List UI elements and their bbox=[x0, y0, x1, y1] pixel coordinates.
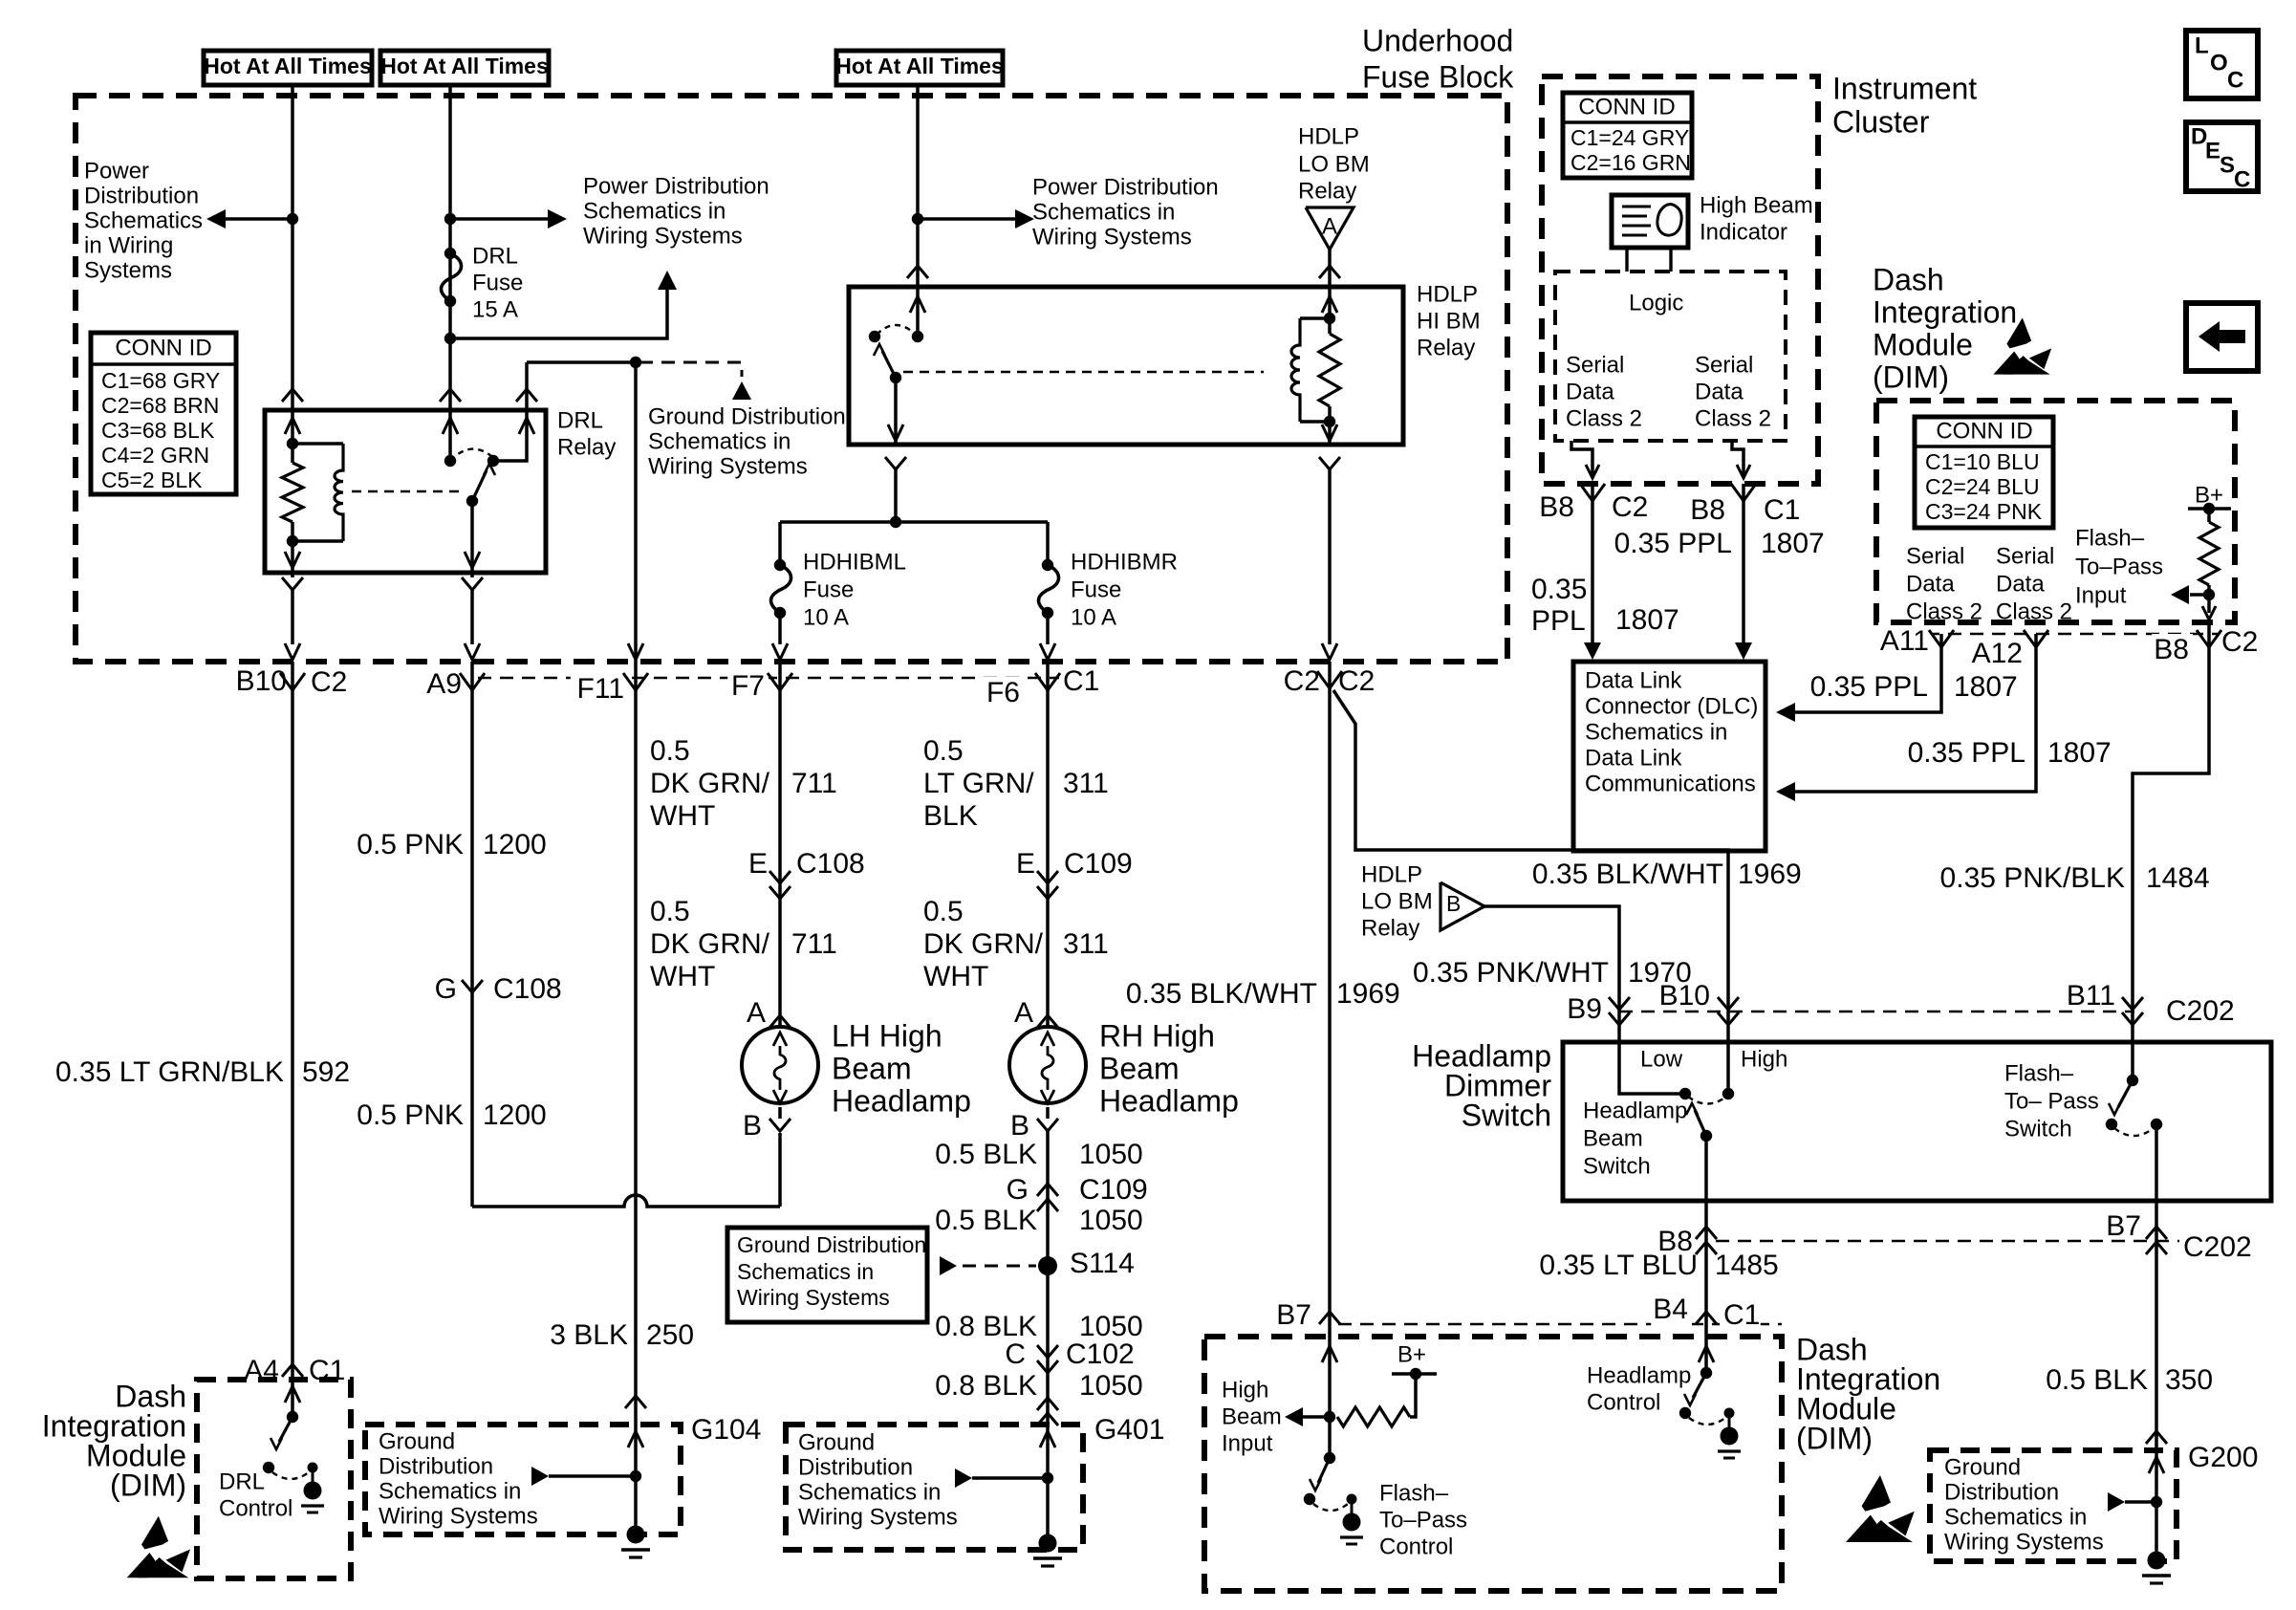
svg-text:311: 311 bbox=[1063, 768, 1109, 799]
wire DRL relay to fuse block edge (x=494) bbox=[470, 590, 474, 644]
svg-text:E: E bbox=[2205, 139, 2220, 164]
HDLP HI BM relay switch movable arm bbox=[882, 351, 896, 378]
connector label C202 (lower) bbox=[2179, 1231, 2254, 1267]
connector chevron B7 into DIM bbox=[1319, 1312, 1340, 1324]
connector table CONN ID (DIM) bbox=[1915, 417, 2053, 528]
junction flash-to-pass switch pivot bbox=[2106, 1119, 2117, 1130]
svg-text:B8: B8 bbox=[2154, 634, 2189, 665]
svg-text:Switch: Switch bbox=[2004, 1117, 2072, 1142]
svg-text:Power Distribution: Power Distribution bbox=[1032, 175, 1219, 201]
svg-text:0.5 BLK: 0.5 BLK bbox=[935, 1139, 1037, 1170]
svg-text:HDLP: HDLP bbox=[1298, 124, 1359, 150]
svg-text:Serial: Serial bbox=[1566, 353, 1624, 379]
svg-text:(DIM): (DIM) bbox=[1873, 359, 1949, 394]
svg-text:CONN ID: CONN ID bbox=[1936, 419, 2032, 445]
ground symbol G401 bbox=[1039, 1534, 1057, 1553]
wire elbow A9 to LH headlamp B terminal (hop over ground wire) bbox=[472, 1195, 780, 1207]
dashed travel arc DRL control bbox=[272, 1472, 309, 1479]
legend box LOC bbox=[2186, 31, 2258, 98]
dashed travel arc flash-to-pass switch bbox=[2114, 1128, 2154, 1136]
wire DRL relay top-right exit to F11 junction bbox=[525, 362, 529, 410]
svg-text:Control: Control bbox=[219, 1496, 292, 1522]
wire into G104 bbox=[628, 1431, 643, 1447]
node B+ (high beam input) bbox=[1410, 1368, 1421, 1380]
connector chevron below DRL relay (B10 wire) bbox=[282, 577, 303, 590]
svg-text:0.5 PNK: 0.5 PNK bbox=[357, 1099, 464, 1131]
svg-text:DK GRN/: DK GRN/ bbox=[923, 928, 1044, 960]
junction HDLP HI BM relay coil bottom bbox=[1324, 416, 1335, 427]
svg-text:A12: A12 bbox=[1972, 638, 2023, 669]
contact flash-to-pass output bbox=[2151, 1119, 2162, 1130]
svg-text:Wiring Systems: Wiring Systems bbox=[798, 1505, 958, 1531]
wire HDHIBML fuse to fuse block edge (F7) bbox=[778, 613, 782, 644]
svg-text:F7: F7 bbox=[731, 670, 765, 702]
dashed control link DRL relay bbox=[352, 490, 461, 493]
svg-text:WHT: WHT bbox=[923, 961, 988, 992]
junction on wire 2 bbox=[444, 213, 456, 225]
jogged wire C2 to headlamp dimmer High (x=1418) bbox=[1333, 690, 1728, 1000]
svg-text:Class 2: Class 2 bbox=[1996, 599, 2072, 625]
svg-text:Class 2: Class 2 bbox=[1906, 599, 1982, 625]
wire A12 serial data to DLC (0.35 PPL 1807) bbox=[1792, 647, 2036, 792]
svg-text:C1=10 BLU: C1=10 BLU bbox=[1925, 449, 2040, 474]
wire from Hot At All Times #3 to HDLP HI BM relay (x=960) bbox=[916, 85, 920, 287]
ground symbol G200 bbox=[2148, 1552, 2166, 1570]
junction HDHIBM fuse branch bbox=[890, 516, 901, 528]
movable arm headlamp beam switch bbox=[1695, 1110, 1706, 1136]
wire B8/C2 to B11 C202 (0.35 PNK/BLK 1484) bbox=[2133, 647, 2209, 1000]
svg-text:Integration: Integration bbox=[1873, 294, 2017, 329]
ground joystick DRL control bbox=[308, 1463, 318, 1473]
svg-text:C108: C108 bbox=[493, 973, 562, 1005]
connector label C2 bbox=[307, 666, 348, 702]
svg-text:Beam: Beam bbox=[1222, 1404, 1282, 1430]
svg-text:0.5: 0.5 bbox=[923, 735, 964, 767]
connector line under DIM (thin dashed) bbox=[1926, 633, 2227, 636]
svg-text:C5=2 BLK: C5=2 BLK bbox=[101, 468, 203, 492]
svg-text:Fuse: Fuse bbox=[803, 577, 854, 603]
svg-text:Systems: Systems bbox=[84, 258, 172, 284]
dashed control link HDLP HI BM relay bbox=[903, 371, 1264, 374]
svg-text:C3=24 PNK: C3=24 PNK bbox=[1925, 499, 2043, 524]
connector chevron A (LH lamp) bbox=[769, 1015, 791, 1028]
movable arm flash-to-pass switch bbox=[2118, 1080, 2133, 1107]
connector fork A9 bbox=[460, 673, 472, 690]
svg-text:711: 711 bbox=[791, 928, 837, 960]
pin label A9 bbox=[424, 668, 466, 704]
splice S114 bbox=[1038, 1256, 1057, 1275]
junction G200 bbox=[2151, 1496, 2162, 1508]
svg-text:B8: B8 bbox=[1539, 491, 1574, 523]
DRL relay coil ground-side wire bbox=[291, 541, 294, 573]
svg-text:C102: C102 bbox=[1066, 1338, 1135, 1370]
wire F6 to RH high beam headlamp (0.5 LT GRN/BLK 311) bbox=[1046, 690, 1050, 1015]
connector fork F11 bbox=[623, 673, 636, 690]
svg-text:1200: 1200 bbox=[483, 829, 547, 860]
ESD sensitive device symbol (DIM bottom) bbox=[1846, 1475, 1915, 1542]
wire HDLP HI BM relay switch output (down) bbox=[894, 378, 898, 445]
svg-text:0.5 BLK: 0.5 BLK bbox=[2046, 1364, 2148, 1396]
pin label F7 bbox=[727, 670, 769, 706]
connector chevron A (RH lamp) bbox=[1037, 1015, 1058, 1028]
svg-text:Input: Input bbox=[2075, 583, 2127, 609]
connector chevron G/C108 bbox=[462, 980, 483, 992]
svg-text:G: G bbox=[435, 973, 457, 1005]
connector fork C2/C2 (HDLP HI BM coil wire) bbox=[1317, 671, 1330, 688]
svg-text:Module: Module bbox=[1873, 327, 1973, 361]
svg-text:0.35 LT GRN/BLK: 0.35 LT GRN/BLK bbox=[55, 1056, 284, 1088]
connector fork A12 bbox=[2024, 630, 2036, 647]
svg-text:B: B bbox=[743, 1110, 762, 1142]
switch Headlamp Dimmer Switch box bbox=[1563, 1042, 2271, 1201]
contact High (dimmer) bbox=[1722, 1088, 1734, 1099]
wire A9 down (0.5 PNK 1200) bbox=[470, 690, 474, 1207]
junction flash-to-pass control pivot bbox=[1304, 1493, 1315, 1505]
svg-text:C108: C108 bbox=[796, 848, 865, 880]
svg-text:Headlamp: Headlamp bbox=[1587, 1363, 1691, 1389]
svg-text:592: 592 bbox=[302, 1056, 350, 1088]
svg-text:B: B bbox=[1010, 1110, 1029, 1142]
wire B10 into dimmer switch High contact bbox=[1726, 1000, 1730, 1094]
svg-text:Distribution: Distribution bbox=[1944, 1480, 2059, 1506]
wire from DRL fuse to Power Distribution arrow (up) bbox=[450, 288, 667, 338]
contact DRL control feed bbox=[287, 1411, 298, 1423]
svg-text:HDHIBMR: HDHIBMR bbox=[1071, 550, 1178, 576]
dashed callout S114 to ground distribution box bbox=[963, 1265, 1036, 1268]
dashed callout to Ground Distribution Schematics bbox=[639, 362, 742, 377]
note box Ground Distribution Schematics in Wiring Systems (S114) bbox=[727, 1228, 927, 1322]
wire triangle B to dimmer switch B9 bbox=[1484, 906, 1619, 1000]
ESD sensitive device symbol (DIM left) bbox=[127, 1516, 190, 1578]
svg-text:C: C bbox=[2234, 167, 2250, 193]
svg-text:Data: Data bbox=[1695, 380, 1744, 405]
connector table CONN ID (Instrument Cluster) bbox=[1563, 93, 1692, 178]
svg-text:1050: 1050 bbox=[1079, 1139, 1143, 1170]
dashed travel arc flash-to-pass control bbox=[1313, 1504, 1348, 1511]
junction HDLP HI BM relay switch pivot bbox=[890, 372, 901, 383]
svg-text:Hot At All Times: Hot At All Times bbox=[204, 54, 372, 78]
svg-text:Schematics in: Schematics in bbox=[379, 1479, 521, 1505]
svg-text:C202: C202 bbox=[2183, 1231, 2252, 1263]
wire HDHIBMR fuse to fuse block edge (F6) bbox=[1046, 613, 1050, 644]
connector chevrons E/C108 bbox=[769, 871, 791, 883]
wire B7 into DIM high beam input bbox=[1322, 1346, 1337, 1362]
svg-text:Switch: Switch bbox=[1583, 1154, 1651, 1180]
lamp LH High Beam Headlamp bbox=[742, 1027, 818, 1103]
power feed box 'Hot At All Times' #3 bbox=[836, 51, 1003, 85]
connector chevrons B10 at C202 bbox=[1718, 997, 1739, 1010]
svg-text:A9: A9 bbox=[426, 668, 462, 700]
svg-text:Relay: Relay bbox=[1361, 916, 1419, 942]
svg-text:To–Pass: To–Pass bbox=[1379, 1508, 1467, 1534]
connector chevron B (RH lamp) bbox=[1037, 1119, 1058, 1131]
legend box back-arrow bbox=[2186, 303, 2258, 371]
wire to HDHIBMR fuse bbox=[1046, 522, 1050, 565]
svg-text:(DIM): (DIM) bbox=[110, 1468, 186, 1502]
wire flash-to-pass input to B8/C2 bbox=[2207, 595, 2211, 613]
svg-text:Underhood: Underhood bbox=[1362, 23, 1513, 57]
junction flash-to-pass input bbox=[2203, 589, 2215, 600]
svg-text:WHT: WHT bbox=[650, 961, 715, 992]
svg-text:C: C bbox=[1005, 1338, 1026, 1370]
svg-text:(DIM): (DIM) bbox=[1796, 1421, 1873, 1455]
wire serial data (IC left) to DLC bbox=[1571, 441, 1592, 476]
svg-text:0.35 PNK/BLK: 0.35 PNK/BLK bbox=[1940, 862, 2125, 894]
wire arrow flash-to-pass input (left) bbox=[2190, 593, 2209, 597]
svg-text:S: S bbox=[2220, 153, 2235, 179]
junction on wire 3 bbox=[912, 213, 923, 225]
svg-text:Control: Control bbox=[1587, 1390, 1660, 1416]
svg-text:0.35 LT BLU: 0.35 LT BLU bbox=[1539, 1250, 1698, 1281]
svg-text:Connector (DLC): Connector (DLC) bbox=[1585, 694, 1758, 720]
junction high beam input bbox=[1324, 1411, 1335, 1423]
ground joystick flash-to-pass control bbox=[1347, 1494, 1357, 1505]
connector chevron below relay (switch output) bbox=[885, 457, 906, 469]
wire arrow to Power Distribution Schematics (middle) bbox=[450, 217, 552, 221]
svg-text:Wiring Systems: Wiring Systems bbox=[648, 454, 808, 480]
svg-text:LH High: LH High bbox=[832, 1018, 942, 1053]
svg-text:Flash–: Flash– bbox=[2075, 526, 2145, 552]
wire C2 to DIM B7 (x=1391) bbox=[1328, 688, 1332, 1417]
DRL relay switch NO contact bbox=[487, 455, 499, 467]
svg-text:High: High bbox=[1741, 1047, 1787, 1073]
junction G401 bbox=[1042, 1472, 1053, 1484]
svg-text:Relay: Relay bbox=[557, 435, 616, 461]
wire resistor to B+ bbox=[1410, 1374, 1416, 1417]
svg-text:1200: 1200 bbox=[483, 1099, 547, 1131]
svg-text:Dash: Dash bbox=[1873, 262, 1944, 296]
wire fuse branch bus bbox=[780, 520, 1048, 524]
pin label B8 (DIM) bbox=[2152, 634, 2193, 669]
contact headlamp control feed bbox=[1700, 1367, 1712, 1379]
connector fork B8/C2 (DIM) bbox=[2197, 630, 2209, 647]
svg-text:To–Pass: To–Pass bbox=[2075, 555, 2163, 580]
wire LH headlamp B terminal down to elbow bbox=[778, 1133, 782, 1207]
wire arrow G401 (from ground distribution) bbox=[972, 1476, 1048, 1480]
svg-text:0.35 BLK/WHT: 0.35 BLK/WHT bbox=[1532, 859, 1723, 890]
module Instrument Cluster dashed box bbox=[1542, 76, 1818, 484]
junction DRL relay resistor/coil top bbox=[287, 438, 298, 449]
wire arrow to Power Distribution Schematics (left) bbox=[222, 217, 292, 221]
svg-text:Class 2: Class 2 bbox=[1566, 406, 1642, 432]
connector chevron G200 entry bbox=[2146, 1431, 2167, 1444]
svg-text:DK GRN/: DK GRN/ bbox=[650, 928, 770, 960]
connector chevron wire3 into relay bbox=[907, 266, 928, 278]
svg-text:C109: C109 bbox=[1079, 1174, 1148, 1206]
wire from Hot At All Times #1 to DRL relay (x=306) bbox=[291, 85, 294, 410]
svg-text:L: L bbox=[2195, 33, 2209, 59]
svg-text:CONN ID: CONN ID bbox=[1578, 95, 1675, 120]
svg-text:B8: B8 bbox=[1690, 494, 1725, 526]
svg-text:F11: F11 bbox=[577, 673, 624, 705]
svg-text:DK GRN/: DK GRN/ bbox=[650, 768, 770, 799]
svg-text:C2=24 BLU: C2=24 BLU bbox=[1925, 474, 2040, 499]
svg-text:1050: 1050 bbox=[1079, 1205, 1143, 1236]
logic block dashed box (Instrument Cluster) bbox=[1555, 272, 1786, 441]
svg-text:Wiring Systems: Wiring Systems bbox=[1032, 225, 1192, 250]
power feed box 'Hot At All Times' #1 bbox=[204, 51, 372, 85]
svg-text:S114: S114 bbox=[1070, 1248, 1135, 1279]
svg-text:B10: B10 bbox=[1659, 980, 1710, 1012]
HDLP HI BM relay coil input arrow bbox=[1328, 287, 1332, 318]
svg-text:Flash–: Flash– bbox=[1379, 1481, 1449, 1507]
connector line C202 (thin dashed, upper) bbox=[1619, 1011, 2134, 1013]
svg-text:A11: A11 bbox=[1880, 625, 1929, 657]
svg-text:0.5: 0.5 bbox=[923, 896, 964, 927]
svg-text:Distribution: Distribution bbox=[84, 184, 199, 209]
svg-text:Headlamp: Headlamp bbox=[1099, 1083, 1239, 1118]
svg-text:C: C bbox=[2227, 68, 2243, 94]
svg-text:HDHIBML: HDHIBML bbox=[803, 550, 906, 576]
connector chevron wire1 into DRL relay bbox=[282, 389, 303, 402]
HDLP HI BM relay switch NC contact bbox=[869, 331, 880, 342]
svg-text:0.35 PPL: 0.35 PPL bbox=[1908, 737, 2025, 769]
connector chevron triangle-A wire into relay bbox=[1319, 266, 1340, 278]
ground block G401 dashed box bbox=[786, 1425, 1083, 1550]
svg-text:Beam: Beam bbox=[1583, 1126, 1643, 1152]
svg-text:To– Pass: To– Pass bbox=[2004, 1089, 2099, 1115]
svg-text:Power: Power bbox=[84, 159, 149, 185]
indicator High Beam Indicator box bbox=[1612, 195, 1688, 248]
svg-text:Logic: Logic bbox=[1629, 291, 1683, 316]
svg-text:711: 711 bbox=[791, 768, 837, 799]
wire A4 into DRL control bbox=[285, 1386, 300, 1403]
wire into G200 bbox=[2149, 1457, 2164, 1473]
svg-text:RH High: RH High bbox=[1099, 1018, 1215, 1053]
pin label A12 bbox=[1969, 638, 2026, 673]
svg-text:O: O bbox=[2210, 51, 2228, 76]
svg-text:Switch: Switch bbox=[1462, 1098, 1551, 1132]
svg-text:WHT: WHT bbox=[650, 800, 715, 832]
wire arrow to Power Distribution Schematics (right) bbox=[918, 217, 1019, 221]
svg-text:B7: B7 bbox=[2106, 1210, 2141, 1242]
svg-text:1050: 1050 bbox=[1079, 1370, 1143, 1402]
svg-text:Schematics in: Schematics in bbox=[648, 429, 791, 455]
wire relay switch output to HDHIBM fuse branch bbox=[894, 469, 898, 522]
connector chevrons B7 at C202 bbox=[2146, 1227, 2167, 1239]
indicator mounting legs bbox=[1625, 248, 1628, 272]
relay contact symbol triangle B (HDLP LO BM Relay) bbox=[1440, 882, 1484, 930]
Underhood Fuse Block dashed enclosure bbox=[76, 96, 1507, 662]
movable arm flash-to-pass control bbox=[1318, 1458, 1330, 1483]
junction HDLP HI BM relay coil top bbox=[1324, 313, 1335, 324]
dashed travel arc HDLP HI BM relay switch bbox=[877, 325, 916, 335]
high beam indicator icon lamp bbox=[1657, 205, 1681, 235]
connector fork F6/C1 bbox=[1035, 673, 1048, 690]
wire A11 serial data to DLC (0.35 PPL 1807) bbox=[1792, 647, 1941, 712]
contact flash-to-pass feed (from B11) bbox=[2131, 1000, 2134, 1080]
resistor high beam input pull-up bbox=[1337, 1407, 1410, 1426]
svg-text:G: G bbox=[1007, 1174, 1029, 1206]
ground block G104 dashed box bbox=[365, 1425, 681, 1534]
svg-text:Control: Control bbox=[1379, 1534, 1453, 1560]
svg-text:0.35 BLK/WHT: 0.35 BLK/WHT bbox=[1126, 978, 1317, 1010]
svg-text:Serial: Serial bbox=[1906, 544, 1964, 570]
resistor HDLP HI BM relay suppression resistor bbox=[1328, 318, 1332, 334]
connector chevron below DRL relay (A9 wire) bbox=[462, 577, 483, 590]
svg-text:0.5 BLK: 0.5 BLK bbox=[935, 1205, 1037, 1236]
svg-text:Ground: Ground bbox=[798, 1430, 875, 1456]
svg-text:Schematics in: Schematics in bbox=[737, 1259, 874, 1284]
wire F11 down to fuse block edge (x=665) bbox=[634, 362, 638, 662]
connector chevrons B11 at C202 bbox=[2122, 997, 2143, 1010]
svg-text:B: B bbox=[1446, 891, 1461, 916]
lamp RH High Beam Headlamp bbox=[1009, 1027, 1086, 1103]
connector chevron DRL relay top-right exit bbox=[516, 389, 537, 402]
connector label C2 (DIM) bbox=[2218, 626, 2259, 662]
svg-text:Instrument: Instrument bbox=[1832, 71, 1977, 105]
svg-text:311: 311 bbox=[1063, 928, 1109, 960]
wire arrow G200 (from ground distribution) bbox=[2125, 1500, 2156, 1504]
ground joystick headlamp control bbox=[1724, 1408, 1735, 1419]
svg-text:High Beam: High Beam bbox=[1700, 193, 1813, 219]
svg-text:C2: C2 bbox=[1612, 491, 1648, 523]
svg-text:C2: C2 bbox=[2221, 626, 2258, 658]
svg-text:A: A bbox=[747, 997, 766, 1029]
svg-text:0.35 PPL: 0.35 PPL bbox=[1614, 528, 1732, 559]
ESD sensitive device symbol (DIM heading) bbox=[1993, 317, 2051, 374]
svg-text:Headlamp: Headlamp bbox=[1583, 1099, 1687, 1124]
connector chevrons C/C102 bbox=[1037, 1345, 1058, 1358]
svg-text:Relay: Relay bbox=[1298, 179, 1356, 205]
svg-text:Beam: Beam bbox=[1099, 1051, 1180, 1085]
svg-text:C109: C109 bbox=[1064, 848, 1133, 880]
module Dash Integration Module dashed box (right) bbox=[1876, 401, 2235, 622]
svg-text:Distribution: Distribution bbox=[798, 1455, 913, 1481]
junction DRL control pivot bbox=[263, 1462, 274, 1473]
svg-text:C2: C2 bbox=[311, 666, 347, 698]
connector line C202 (thin dashed, lower) bbox=[1716, 1240, 2242, 1243]
svg-text:Headlamp: Headlamp bbox=[832, 1083, 971, 1118]
svg-text:10 A: 10 A bbox=[1071, 605, 1116, 631]
connector label C1 (DIM) bbox=[1720, 1299, 1761, 1335]
connector chevron A4/C1 bbox=[282, 1364, 303, 1377]
svg-text:0.5 PNK: 0.5 PNK bbox=[357, 829, 464, 860]
svg-text:A: A bbox=[1014, 997, 1033, 1029]
svg-text:Schematics: Schematics bbox=[84, 208, 203, 234]
legend box DESC bbox=[2186, 122, 2258, 191]
dashed travel arc headlamp control bbox=[1689, 1418, 1725, 1425]
svg-text:0.8 BLK: 0.8 BLK bbox=[935, 1370, 1037, 1402]
block Data Link Connector (DLC) schematic reference box bbox=[1573, 662, 1765, 851]
movable arm DRL control bbox=[279, 1417, 292, 1442]
svg-text:F6: F6 bbox=[986, 677, 1020, 708]
HDLP HI BM relay switch common contact (from wire3) bbox=[916, 287, 920, 337]
junction on wire 1 bbox=[287, 213, 298, 225]
dashed travel arc headlamp beam switch bbox=[1688, 1097, 1726, 1104]
svg-text:HDLP: HDLP bbox=[1417, 282, 1478, 308]
svg-text:Schematics in: Schematics in bbox=[1585, 720, 1727, 746]
svg-text:Communications: Communications bbox=[1585, 772, 1756, 797]
svg-text:C202: C202 bbox=[2166, 995, 2235, 1027]
svg-text:Data: Data bbox=[1566, 380, 1614, 405]
svg-text:C1: C1 bbox=[1764, 494, 1800, 526]
svg-text:B7: B7 bbox=[1276, 1299, 1311, 1331]
wire triangle A to HDLP HI BM relay bbox=[1328, 250, 1332, 287]
relay DRL Relay box bbox=[265, 410, 546, 573]
coil HDLP HI BM relay coil bbox=[1300, 316, 1330, 320]
svg-text:C1=68 GRY: C1=68 GRY bbox=[101, 368, 220, 393]
svg-text:PPL: PPL bbox=[1531, 605, 1586, 637]
svg-text:C3=68 BLK: C3=68 BLK bbox=[101, 418, 215, 443]
wire RH headlamp ground (0.5 BLK 1050) bbox=[1046, 1131, 1050, 1534]
svg-text:DRL: DRL bbox=[219, 1469, 265, 1495]
svg-text:Schematics in: Schematics in bbox=[798, 1480, 941, 1506]
connector chevrons B9 at C202 bbox=[1609, 997, 1630, 1010]
svg-text:CONN ID: CONN ID bbox=[115, 336, 211, 361]
svg-text:C2: C2 bbox=[1338, 665, 1375, 697]
svg-text:Ground: Ground bbox=[1944, 1455, 2021, 1481]
